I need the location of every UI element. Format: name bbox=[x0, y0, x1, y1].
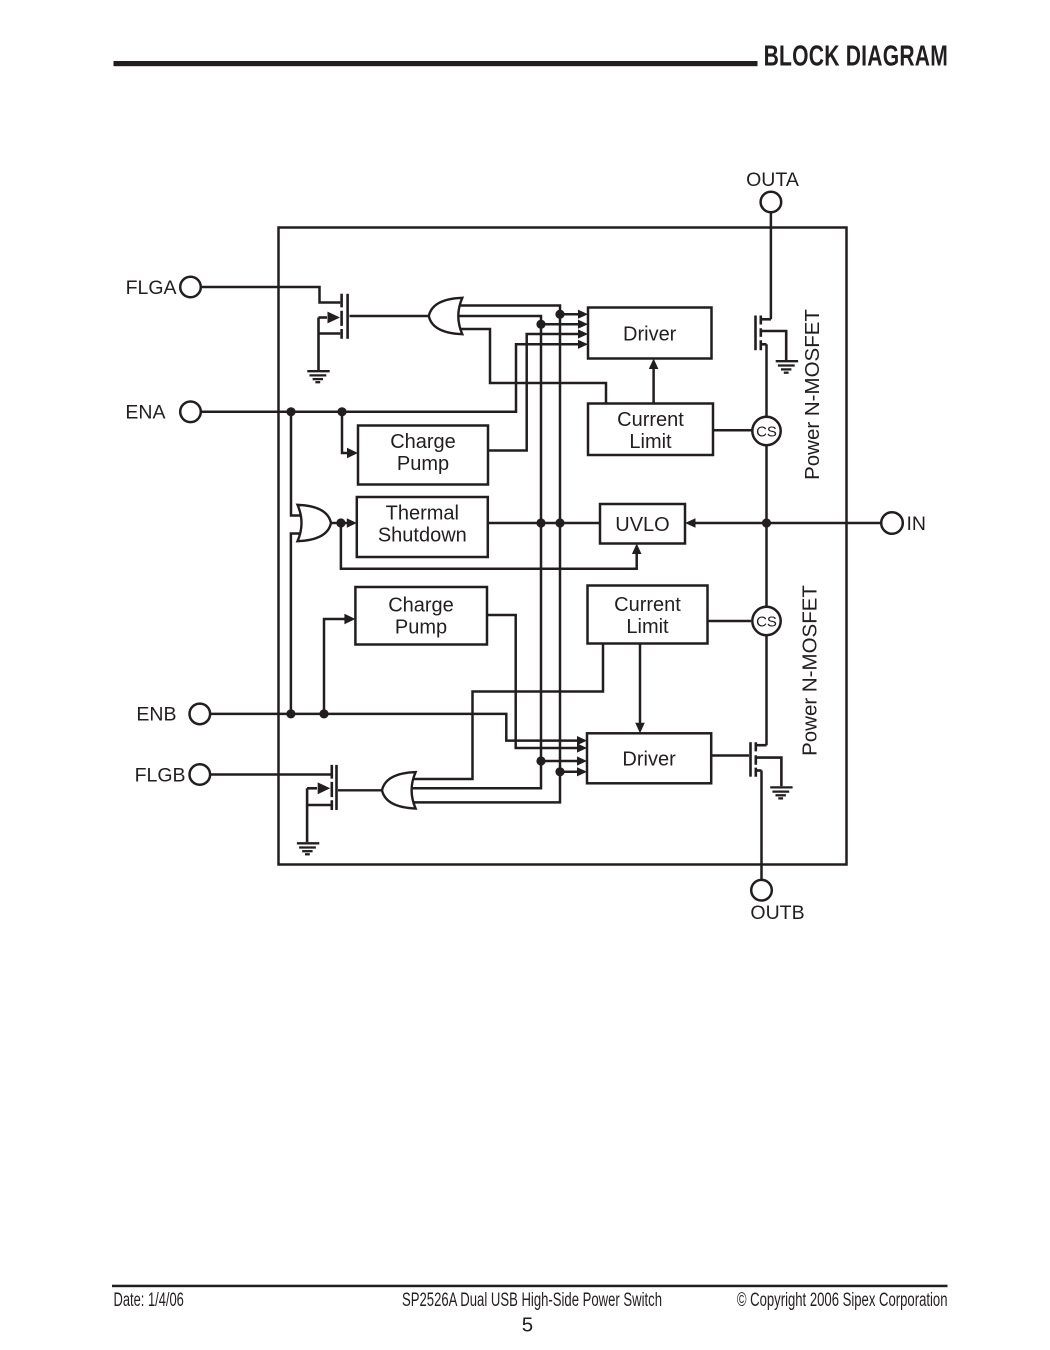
svg-text:SP2526A Dual USB High-Side Pow: SP2526A Dual USB High-Side Power Switch bbox=[402, 1290, 662, 1311]
svg-text:UVLO: UVLO bbox=[615, 514, 669, 536]
svg-text:Shutdown: Shutdown bbox=[378, 525, 467, 547]
svg-text:Driver: Driver bbox=[623, 323, 677, 345]
svg-text:IN: IN bbox=[907, 513, 927, 535]
svg-text:Current: Current bbox=[617, 409, 684, 431]
svg-text:Charge: Charge bbox=[390, 431, 456, 453]
svg-text:Thermal: Thermal bbox=[386, 503, 459, 525]
svg-text:ENA: ENA bbox=[125, 402, 165, 424]
svg-text:FLGB: FLGB bbox=[135, 764, 186, 786]
svg-text:Power N-MOSFET: Power N-MOSFET bbox=[799, 585, 822, 756]
svg-text:Limit: Limit bbox=[626, 616, 669, 638]
svg-text:OUTB: OUTB bbox=[750, 902, 804, 924]
svg-text:5: 5 bbox=[522, 1314, 533, 1337]
svg-text:Pump: Pump bbox=[397, 453, 449, 475]
svg-text:Pump: Pump bbox=[395, 617, 447, 639]
svg-text:Power N-MOSFET: Power N-MOSFET bbox=[801, 309, 824, 480]
svg-text:FLGA: FLGA bbox=[126, 277, 177, 299]
svg-text:BLOCK DIAGRAM: BLOCK DIAGRAM bbox=[764, 40, 948, 72]
svg-text:Charge: Charge bbox=[388, 595, 454, 617]
svg-text:ENB: ENB bbox=[136, 704, 176, 726]
svg-text:CS: CS bbox=[756, 423, 777, 440]
svg-text:Driver: Driver bbox=[622, 749, 676, 771]
svg-text:Limit: Limit bbox=[629, 431, 672, 453]
svg-text:CS: CS bbox=[756, 613, 777, 630]
svg-text:Current: Current bbox=[614, 594, 681, 616]
svg-text:Date: 1/4/06: Date: 1/4/06 bbox=[114, 1290, 184, 1311]
svg-text:OUTA: OUTA bbox=[746, 169, 799, 191]
svg-text:© Copyright 2006 Sipex Corpora: © Copyright 2006 Sipex Corporation bbox=[737, 1290, 948, 1311]
